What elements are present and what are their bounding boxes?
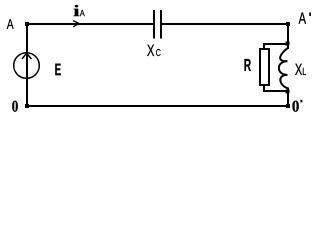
junction dot bottom (coil/resistor tap) <box>286 90 290 94</box>
label 0 <box>12 101 18 112</box>
node A' dot <box>286 22 290 26</box>
wire right vertical lower (coil bottom to 0') <box>287 88 289 108</box>
label 0' <box>292 101 298 112</box>
wire resistor top stub <box>263 43 265 49</box>
label XL <box>295 64 302 75</box>
label A' <box>299 12 306 23</box>
wire top-left horizontal (A to capacitor) <box>26 23 154 25</box>
node 0 dot <box>25 104 29 108</box>
label A <box>7 19 14 29</box>
resistor R body <box>260 49 269 85</box>
junction dot top (coil/resistor tap) <box>286 42 290 46</box>
wire bottom horizontal <box>26 105 289 107</box>
wire left vertical <box>26 23 28 107</box>
source E circle <box>14 53 40 79</box>
current arrow on top wire <box>73 21 79 27</box>
label E <box>55 64 60 76</box>
inductor XL coil <box>279 48 288 89</box>
wire top jog to resistor <box>263 43 289 45</box>
wire top-right horizontal (capacitor to A') <box>161 23 289 25</box>
label Xc <box>147 45 154 56</box>
node A dot <box>25 22 29 26</box>
wire resistor bottom stub <box>263 85 265 92</box>
wire bottom jog from resistor <box>263 90 289 92</box>
capacitor right plate <box>160 10 162 39</box>
node 0' dot <box>286 104 290 108</box>
label iA <box>74 5 80 16</box>
source E arrow <box>22 53 31 59</box>
capacitor left plate <box>153 10 155 39</box>
label R <box>245 59 251 71</box>
wire right vertical upper (A' to coil top) <box>287 23 289 49</box>
